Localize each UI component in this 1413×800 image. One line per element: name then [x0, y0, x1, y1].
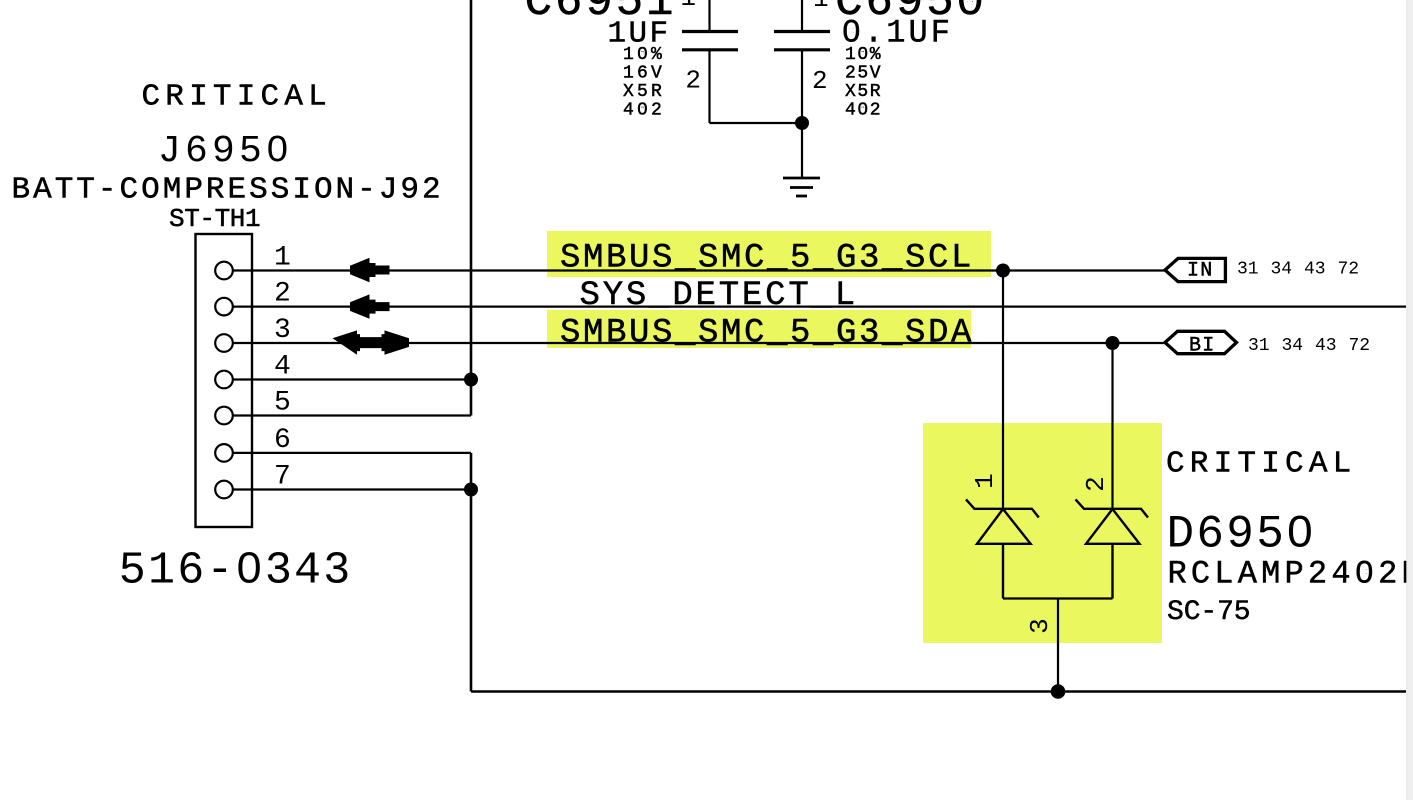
svg-text:1: 1 [813, 0, 829, 14]
C6950 package 402 [845, 101, 882, 121]
svg-text:516-0343: 516-0343 [119, 546, 353, 597]
svg-text:J6950: J6950 [158, 130, 293, 173]
junction bottom rail to D6950 pin 3 [1051, 684, 1066, 699]
svg-text:43: 43 [1315, 336, 1337, 356]
svg-text:25V: 25V [845, 64, 882, 84]
svg-text:BATT-COMPRESSION-J92: BATT-COMPRESSION-J92 [12, 173, 444, 208]
svg-text:72: 72 [1349, 336, 1371, 356]
svg-text:3: 3 [274, 315, 291, 346]
connector pin circle 4 [215, 371, 233, 389]
connector J6950 body [196, 234, 253, 527]
highlight box net SMBUS_SMC_5_G3_SCL [547, 231, 991, 277]
svg-text:4: 4 [274, 352, 291, 383]
wire pin 3 SMBUS_SMC_5_G3_SDA [233, 342, 1165, 344]
svg-text:72: 72 [1338, 260, 1360, 280]
input arrow pin 1 [350, 258, 390, 282]
svg-text:SMBUS_SMC_5_G3_SDA: SMBUS_SMC_5_G3_SDA [560, 315, 974, 353]
connector pin circle 6 [215, 444, 233, 462]
wire D6950 pin 2 from SDA [1111, 343, 1113, 509]
part number 516-0343 [119, 546, 353, 597]
C6950 tolerance 10% [845, 45, 882, 65]
svg-text:7: 7 [274, 462, 291, 493]
wire trunk pin6 down to bottom rail [470, 453, 473, 692]
svg-text:5: 5 [274, 388, 291, 419]
diode D6950 element 1 (TVS) [966, 499, 1039, 598]
wire pin 6 [233, 452, 471, 454]
svg-text:16V: 16V [623, 64, 665, 84]
svg-text:D6950: D6950 [1167, 509, 1317, 561]
svg-text:31: 31 [1248, 336, 1270, 356]
bidirectional arrow pin 3 [333, 330, 410, 354]
svg-text:3: 3 [1025, 618, 1055, 634]
svg-text:SYS_DETECT_L: SYS_DETECT_L [580, 277, 858, 315]
svg-text:RCLAMP2402B: RCLAMP2402B [1168, 556, 1413, 593]
capacitor C6950 [774, 0, 830, 178]
page edge strip [1407, 0, 1413, 800]
wire D6950 pin 1 from SCL [1002, 271, 1004, 510]
svg-text:31: 31 [1237, 260, 1259, 280]
wire D6950 common anode rail [1003, 597, 1113, 599]
svg-text:X5R: X5R [623, 82, 665, 102]
svg-text:6: 6 [274, 425, 291, 456]
wire pin 1 SMBUS_SMC_5_G3_SCL [233, 269, 1165, 271]
svg-text:1: 1 [274, 243, 291, 274]
refdes D6950 [1167, 509, 1317, 561]
svg-text:2: 2 [685, 66, 701, 96]
svg-text:10%: 10% [845, 45, 882, 65]
off-page connector BI [1165, 331, 1237, 357]
svg-text:BI: BI [1189, 334, 1215, 357]
wire pin 2 SYS_DETECT_L [233, 306, 1406, 308]
svg-text:10%: 10% [623, 45, 665, 65]
bottom rail wire [471, 690, 1406, 693]
wire D6950 pin 3 tap [1057, 599, 1059, 692]
ground symbol [783, 178, 820, 196]
svg-text:1: 1 [970, 473, 1000, 489]
C6951 tolerance 10% [623, 45, 665, 65]
wire vertical trunk x471 top to pin5 [470, 0, 473, 416]
junction SCL to D6950 pin 1 [996, 264, 1010, 278]
wire pin 7 [233, 488, 471, 490]
refdes J6950 [158, 130, 293, 173]
junction pin 4 to trunk [464, 373, 478, 387]
svg-text:34: 34 [1282, 336, 1304, 356]
part RCLAMP2402B [1168, 556, 1413, 593]
svg-text:2: 2 [274, 279, 291, 310]
svg-text:402: 402 [623, 101, 665, 121]
wire pin 5 [233, 414, 471, 416]
svg-text:ST-TH1: ST-TH1 [169, 204, 260, 234]
junction SDA to D6950 pin 2 [1106, 336, 1120, 350]
input arrow pin 2 [350, 294, 390, 318]
connector pin circle 2 [215, 298, 233, 316]
page edge strip border [1406, 0, 1408, 800]
connector pin circle 3 [215, 334, 233, 352]
svg-text:SMBUS_SMC_5_G3_SCL: SMBUS_SMC_5_G3_SCL [560, 240, 974, 278]
svg-text:2: 2 [1081, 476, 1111, 492]
junction dot caps common node [795, 116, 809, 130]
connector pin circle 5 [215, 407, 233, 425]
svg-text:1: 1 [680, 0, 696, 13]
off-page connector IN [1165, 258, 1225, 282]
highlight box net SMBUS_SMC_5_G3_SDA [547, 310, 971, 348]
highlight box diode D6950 [923, 423, 1162, 643]
svg-text:2: 2 [812, 66, 828, 96]
svg-text:X5R: X5R [845, 82, 882, 102]
svg-text:SC-75: SC-75 [1167, 597, 1251, 628]
capacitor C6951 [682, 0, 738, 123]
svg-text:IN: IN [1187, 259, 1213, 282]
diode D6950 element 2 (TVS) [1076, 499, 1149, 598]
connector pin circle 7 [215, 481, 233, 499]
wire pin 4 [233, 378, 471, 380]
connector pin circle 1 [215, 262, 233, 280]
junction pin 7 to trunk [464, 483, 478, 497]
svg-text:CRITICAL: CRITICAL [142, 80, 332, 115]
wire C6951 pin2 to ground node [710, 122, 803, 124]
svg-text:34: 34 [1271, 260, 1293, 280]
value C6950 0.1UF [842, 15, 953, 52]
svg-text:43: 43 [1304, 260, 1326, 280]
svg-text:402: 402 [845, 101, 882, 121]
refdes C6950 [835, 0, 987, 28]
svg-text:CRITICAL: CRITICAL [1166, 446, 1356, 481]
C6951 package 402 [623, 101, 665, 121]
